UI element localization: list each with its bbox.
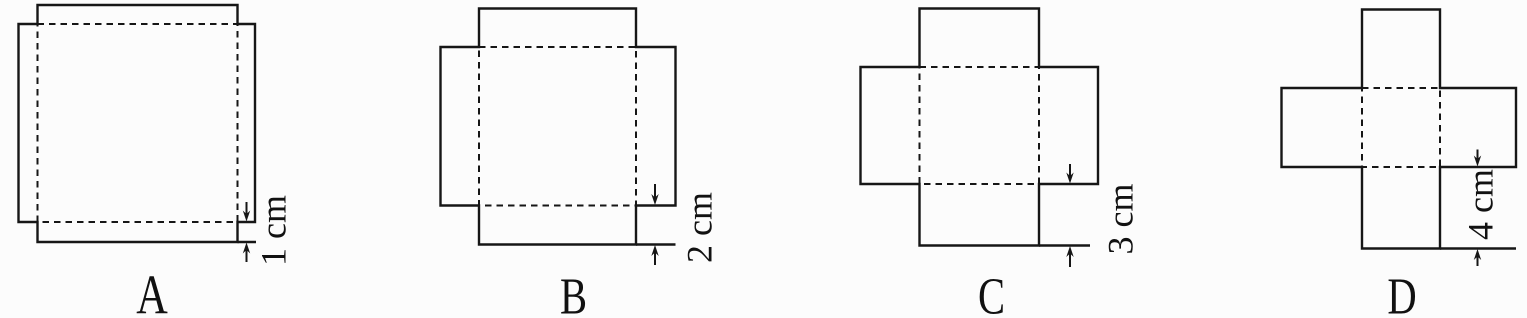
figure C: cross-shaped box net outline (solid) — [861, 9, 1099, 246]
figure A: down arrow pointing at fold line — [246, 202, 248, 217]
figure A: bottom edge extension line — [238, 241, 257, 243]
figure D: dashed fold-line square — [1362, 88, 1440, 167]
figure B: dashed fold-line square — [479, 47, 636, 206]
figure D: cross-shaped box net outline (solid) — [1282, 10, 1517, 249]
figure B: letter label B — [560, 268, 587, 318]
svg-text:D: D — [1387, 268, 1416, 318]
figure C: bottom edge extension line — [1039, 244, 1090, 246]
svg-text:B: B — [560, 268, 587, 318]
figure C: down arrow pointing at fold line — [1069, 164, 1071, 179]
figure B: cross-shaped box net outline (solid) — [441, 9, 676, 245]
figure D: down arrow pointing at fold line — [1477, 150, 1479, 163]
figure A: dashed fold-line square — [38, 24, 238, 222]
figure A: letter label A — [136, 263, 168, 318]
figure C: up arrow pointing at bottom edge — [1069, 251, 1071, 268]
figure A: cross-shaped box net outline (solid) — [19, 5, 256, 242]
figure D: letter label D — [1387, 268, 1416, 318]
figure C: letter label C — [978, 268, 1005, 318]
figure B: bottom edge extension line — [636, 243, 676, 245]
svg-text:2 cm: 2 cm — [680, 192, 720, 263]
svg-text:1 cm: 1 cm — [254, 195, 294, 266]
figure C: dashed fold-line square — [920, 67, 1040, 184]
figure D: up arrow pointing at bottom edge — [1477, 254, 1479, 267]
svg-text:4 cm: 4 cm — [1461, 169, 1501, 240]
svg-text:A: A — [136, 263, 168, 318]
figure A: up arrow pointing at bottom edge — [246, 247, 248, 262]
figure B: up arrow pointing at bottom edge — [654, 250, 656, 266]
svg-text:C: C — [978, 268, 1005, 318]
figure D: bottom edge extension line — [1440, 247, 1516, 249]
figure B: down arrow pointing at fold line — [654, 184, 656, 201]
svg-text:3 cm: 3 cm — [1101, 184, 1141, 255]
